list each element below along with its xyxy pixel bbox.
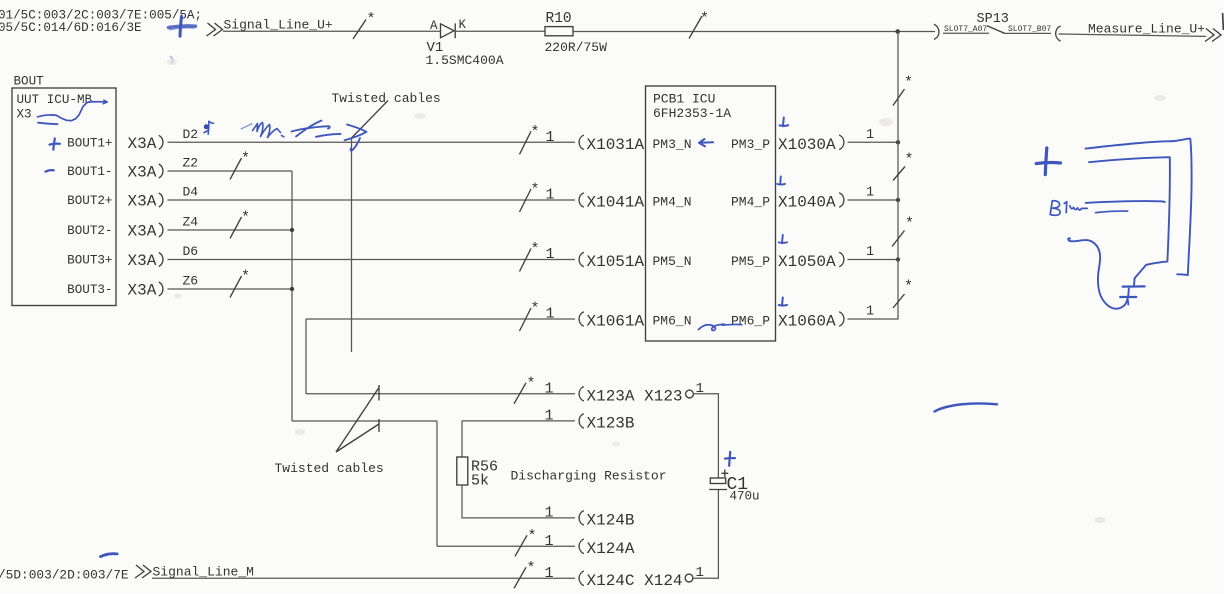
svg-text:D4: D4	[183, 185, 199, 200]
interruption slash X124C row	[514, 567, 526, 588]
wire diode cathode to resistor R10	[455, 30, 545, 32]
svg-text:1: 1	[866, 245, 874, 260]
svg-text:X1040A: X1040A	[778, 194, 836, 212]
svg-text:X1061A: X1061A	[587, 313, 645, 331]
interruption slash bus segment2	[893, 167, 905, 181]
pen arrow scribble above D2	[292, 121, 330, 137]
scan edge artifact top right	[1222, 13, 1224, 30]
svg-text:A: A	[430, 19, 438, 33]
interruption slash on Z2	[230, 158, 242, 179]
svg-text:BOUT: BOUT	[14, 75, 45, 89]
pen note-mark above D2 wire	[204, 124, 209, 129]
interruption slash on Z4	[230, 217, 242, 238]
svg-text:1: 1	[545, 504, 554, 521]
svg-text:Z2: Z2	[183, 156, 199, 171]
svg-text:X1031A: X1031A	[587, 136, 645, 154]
svg-text:*: *	[905, 216, 914, 233]
twisted cables pointer top	[352, 101, 389, 139]
svg-text:*: *	[531, 182, 540, 199]
svg-text:X1030A: X1030A	[778, 136, 836, 154]
interruption slash bus segment3	[892, 231, 905, 247]
svg-text:220R/75W: 220R/75W	[545, 40, 608, 55]
svg-text:X1060A: X1060A	[778, 313, 836, 331]
svg-text:UUT ICU-MB: UUT ICU-MB	[17, 93, 93, 107]
svg-text:X1050A: X1050A	[778, 253, 836, 271]
pen doodle under dash	[1096, 211, 1128, 213]
svg-text:D2: D2	[183, 127, 199, 142]
wire Z-bus horizontal to X124A branch	[292, 420, 437, 422]
svg-text:X3A: X3A	[128, 223, 157, 241]
svg-text:X3: X3	[17, 108, 32, 122]
wire Z4 : X3A to Z-bus	[168, 229, 293, 231]
wire row4 to X1061A	[306, 318, 575, 320]
svg-text:*: *	[531, 301, 540, 318]
svg-text:X3A: X3A	[128, 135, 157, 153]
connector pin X3A row3	[159, 193, 163, 207]
svg-text:Z6: Z6	[183, 274, 199, 289]
svg-text:BOUT2+: BOUT2+	[67, 194, 112, 208]
connector pin SLOT7_A07 socket	[934, 24, 939, 39]
svg-text:PM4_N: PM4_N	[653, 195, 692, 210]
pen doodle cap bottom line	[1120, 296, 1136, 298]
svg-text:1: 1	[545, 380, 554, 397]
connector pin X123A	[579, 387, 584, 402]
svg-text:*: *	[531, 241, 540, 258]
svg-text:1: 1	[546, 246, 555, 263]
svg-text:1: 1	[866, 305, 874, 320]
svg-text:*: *	[904, 279, 913, 296]
connector pin X3A row1	[159, 135, 163, 149]
svg-text:BOUT1-: BOUT1-	[67, 165, 112, 179]
pen cursive scribble above D2	[241, 124, 252, 129]
connector pin X3A row6	[159, 282, 163, 296]
interruption slash X124A row	[515, 535, 527, 556]
pen doodle J-hook	[1068, 238, 1129, 309]
interruption slash row3	[520, 249, 532, 272]
interruption slash row1	[520, 131, 532, 154]
source arrow Signal_Line_M	[135, 565, 144, 578]
svg-text:PM6_P: PM6_P	[731, 314, 770, 329]
svg-text:5k: 5k	[471, 473, 489, 490]
connector pin X124A	[579, 539, 584, 554]
pen scribble in UUT box	[38, 102, 107, 121]
svg-text:R10: R10	[546, 11, 572, 27]
interruption slash bus segment1	[893, 89, 905, 106]
interruption slash on top wire	[353, 20, 366, 40]
svg-text:*: *	[367, 11, 376, 28]
interruption slash on Z6	[230, 276, 242, 297]
wire Signal_Line_U+ to diode V1 anode	[223, 30, 440, 32]
scan smudges (decorative)	[167, 59, 1166, 523]
svg-text:PCB1 ICU: PCB1 ICU	[653, 92, 715, 107]
twisted cables tick2 bottom	[378, 419, 380, 432]
svg-text:Signal_Line_U+: Signal_Line_U+	[224, 18, 333, 33]
junction X1040A on bus	[896, 198, 900, 202]
wire X1061A to X123A vertical link	[305, 319, 307, 394]
wire Z6 : X3A to Z-bus	[168, 288, 293, 290]
interruption slash row4	[520, 308, 532, 331]
pen down-arrow above X1030A	[780, 118, 789, 127]
twisted cables tick1 bottom	[378, 385, 380, 401]
wire under SLOT7_A07	[943, 32, 989, 34]
svg-text:*: *	[531, 124, 540, 141]
svg-text:X3A: X3A	[128, 193, 157, 211]
svg-text:Signal_Line_M: Signal_Line_M	[153, 565, 254, 580]
svg-text:BOUT1+: BOUT1+	[67, 136, 112, 150]
terminal circle X123	[686, 390, 694, 398]
connector pin X1041A	[579, 193, 584, 208]
svg-text:*: *	[527, 375, 536, 392]
svg-text:BOUT2-: BOUT2-	[67, 224, 112, 238]
wire under SLOT7_B07	[1003, 32, 1051, 34]
pen down-arrow above X1040A	[777, 177, 785, 185]
wire X124 to C1 branch	[693, 490, 718, 579]
wire to X124A	[437, 545, 575, 547]
svg-text:6FH2353-1A: 6FH2353-1A	[653, 106, 731, 121]
svg-text:X3A: X3A	[128, 252, 157, 270]
pen swoosh mid right	[935, 403, 998, 411]
pen left-arrow at PM3	[699, 139, 713, 146]
wire Z-bus vertical	[291, 171, 293, 421]
destination arrow Measure_Line_U+	[1205, 29, 1214, 42]
connector pin SLOT7_B07 socket	[1056, 26, 1061, 41]
wire to X123A	[306, 393, 575, 395]
capacitor C1 top plate	[710, 478, 725, 484]
wire X123B row	[462, 420, 575, 422]
connector pin X124B	[579, 511, 584, 526]
svg-text:X1041A: X1041A	[587, 194, 645, 212]
node junction at bus top	[895, 29, 900, 34]
svg-text:PM6_N: PM6_N	[653, 314, 692, 329]
junction Z6 on Z-bus	[290, 287, 294, 291]
svg-text:X123A X123: X123A X123	[587, 387, 683, 405]
interruption slash row2	[520, 189, 532, 212]
pen down-arrow above X1050A	[779, 235, 787, 243]
svg-text:*: *	[904, 75, 913, 92]
svg-text:BOUT3+: BOUT3+	[67, 254, 112, 268]
svg-text:D6: D6	[183, 244, 199, 259]
svg-text:X124A: X124A	[587, 540, 635, 558]
pen dash-arrow above D2	[316, 134, 341, 137]
interruption slash X123A row	[514, 383, 526, 404]
pen handwriting B1	[1050, 201, 1060, 216]
svg-text:Twisted cables: Twisted cables	[275, 461, 384, 476]
svg-text:*: *	[527, 560, 536, 577]
svg-text:*: *	[241, 210, 250, 227]
resistor R10 body	[545, 27, 573, 36]
svg-text:1: 1	[545, 533, 554, 550]
connector pin X3A row2	[159, 164, 163, 178]
svg-text:1: 1	[866, 128, 874, 143]
svg-text:Measure_Line_U+: Measure_Line_U+	[1088, 22, 1205, 37]
connector pin X1061A	[579, 312, 584, 327]
device box UUT ICU-MB	[12, 88, 116, 306]
junction Z4 on Z-bus	[290, 228, 294, 232]
svg-text:1: 1	[546, 129, 555, 146]
svg-text:*: *	[700, 11, 709, 28]
connector pin X3A row5	[159, 253, 163, 267]
svg-text:PM3_P: PM3_P	[731, 137, 770, 152]
interruption slash on wire after R10	[689, 16, 702, 39]
svg-text:X1051A: X1051A	[587, 253, 645, 271]
junction X1050A on bus	[896, 257, 900, 261]
svg-text:*: *	[241, 151, 250, 168]
svg-text:Twisted cables: Twisted cables	[332, 91, 441, 106]
pen doodle cap top line	[1123, 285, 1145, 287]
svg-text:PM3_N: PM3_N	[653, 137, 692, 152]
svg-text:K: K	[459, 18, 467, 32]
svg-text:X124C X124: X124C X124	[587, 572, 683, 590]
polarity plus C1	[721, 470, 728, 478]
svg-text:1: 1	[545, 565, 554, 582]
connector pin X124C	[579, 571, 584, 586]
pen cross right side	[1045, 148, 1047, 175]
twisted cables pointer2 bottom	[336, 424, 379, 452]
svg-text:05/5C:014/6D:016/3E: 05/5C:014/6D:016/3E	[0, 21, 142, 35]
svg-text:1: 1	[545, 407, 554, 424]
pen doodle cap stem	[1127, 299, 1130, 305]
wire X123B down to R56	[461, 421, 463, 457]
junction X1030A on bus	[896, 140, 900, 144]
pen down-arrow above X1060A	[779, 298, 787, 306]
svg-text:SLOT7_A07: SLOT7_A07	[944, 25, 987, 34]
pen squiggle under PM6_N	[699, 324, 742, 330]
pen dash bottom-left	[101, 554, 118, 557]
pen doodle inner outline	[1089, 157, 1170, 286]
wire R56 down to X124B row	[462, 485, 575, 518]
wire D4 : X3A to X1041A	[168, 199, 576, 201]
connector pin X1051A	[579, 252, 584, 267]
resistor R56 body	[457, 457, 468, 485]
svg-text:PM5_P: PM5_P	[731, 254, 770, 269]
pen mark at BOUT1-	[46, 170, 54, 171]
connector pin X1030A	[839, 135, 844, 150]
twisted cables pointer1 bottom	[336, 388, 379, 453]
twisted cables marker line top	[351, 138, 353, 352]
diode V1	[441, 23, 456, 38]
pen plus above C1	[725, 452, 735, 466]
svg-text:1: 1	[546, 306, 555, 323]
svg-text:PM4_P: PM4_P	[731, 195, 770, 210]
svg-text:1: 1	[546, 187, 555, 204]
wire SLOT7_B07 to Measure_Line_U+	[1059, 34, 1207, 36]
connector pin X1050A	[839, 252, 844, 267]
connector pin X3A row4	[159, 223, 163, 237]
pen handwriting w scribble	[1070, 206, 1087, 210]
connector pin X1060A	[839, 312, 844, 327]
wire X1050A to bus	[848, 259, 899, 261]
wire X1040A to bus	[848, 199, 899, 201]
terminal circle X124	[685, 574, 693, 582]
wire X1030A to bus	[848, 141, 899, 143]
pen doodle outer outline	[1086, 139, 1192, 275]
svg-text:*: *	[528, 528, 537, 545]
device box PCB1 ICU	[646, 86, 776, 341]
svg-text:470u: 470u	[730, 489, 760, 503]
wire D6 : X3A to X1051A	[168, 259, 576, 261]
svg-text:X124B: X124B	[587, 511, 635, 529]
svg-text:Discharging Resistor: Discharging Resistor	[511, 469, 667, 484]
wire R10 to SP13 connector	[573, 31, 935, 33]
switch blade SP13	[987, 26, 1005, 34]
svg-text:SLOT7_B07: SLOT7_B07	[1008, 25, 1051, 34]
wire X1060A to bus corner	[848, 32, 899, 320]
wire Signal_Line_M to X124C	[152, 577, 575, 579]
svg-text:1.5SMC400A: 1.5SMC400A	[426, 53, 504, 68]
pen mark at BOUT1+	[50, 138, 61, 149]
connector pin X123B	[579, 414, 584, 429]
pen chevron arrowhead above twisted line	[345, 125, 367, 151]
svg-text:BOUT3-: BOUT3-	[67, 283, 112, 297]
svg-text:*: *	[241, 269, 250, 286]
svg-text:X123B: X123B	[587, 414, 635, 432]
svg-text:Z4: Z4	[183, 215, 199, 230]
wire X123 to C1 branch	[694, 394, 719, 478]
wire Z2 : X3A to Z-bus	[168, 170, 293, 172]
wire D2 : X3A to X1031A	[168, 141, 576, 143]
svg-text:*: *	[905, 152, 914, 169]
wire X124A branch vertical	[436, 421, 438, 546]
svg-text:X3A: X3A	[128, 282, 157, 300]
pen dash in UUT box	[38, 123, 58, 125]
svg-text:X3A: X3A	[128, 164, 157, 182]
interruption slash bus segment4	[893, 294, 905, 308]
source arrow Signal_Line_U+	[207, 23, 216, 36]
svg-text:PM5_N: PM5_N	[653, 254, 692, 269]
pen doodle mid line	[1086, 201, 1165, 203]
pen cross top-left	[169, 26, 196, 28]
svg-text:/5D:003/2D:003/7E: /5D:003/2D:003/7E	[0, 568, 129, 583]
connector pin X1031A	[579, 135, 584, 150]
pen smudge below cross	[171, 57, 173, 64]
capacitor C1 bottom plate	[709, 489, 727, 491]
connector pin X1040A	[839, 193, 844, 208]
svg-text:1: 1	[866, 186, 874, 201]
